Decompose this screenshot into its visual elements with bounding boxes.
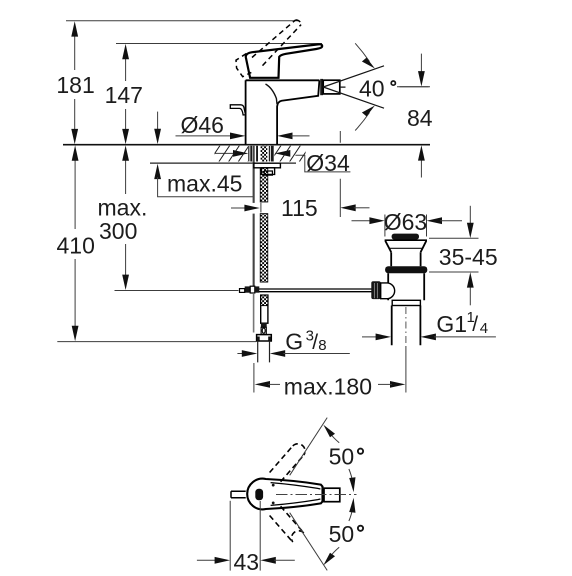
pull rod lower thin part (253, 294, 255, 333)
dimension 410 (57, 145, 95, 341)
dimension Ø34 (deck hole) (215, 150, 351, 176)
svg-text:max.45: max.45 (167, 171, 242, 197)
rod coupling block (245, 286, 251, 292)
plan spray outlet stub (231, 491, 246, 497)
dimension G1 1/4 (waste thread) (362, 309, 496, 341)
aerator block (323, 80, 340, 94)
50deg upper arc arrows (323, 425, 363, 493)
lever handle raised position (dashed) (236, 20, 301, 77)
svg-text:Ø63: Ø63 (384, 209, 427, 235)
dimension G 3/8 (hose thread) (237, 327, 349, 357)
plan lever inner edges (271, 483, 321, 489)
50deg extension line upper (290, 418, 328, 476)
dimension 35-45 (429, 206, 498, 305)
plan aerator junction (323, 488, 325, 501)
svg-text:G: G (285, 329, 303, 355)
svg-text:181: 181 (56, 72, 94, 98)
aerator junction band (320, 79, 323, 95)
dimension 181 (56, 21, 94, 144)
extension line lever tip level (116, 43, 322, 45)
braided hose upper section (260, 168, 268, 202)
svg-text:max.180: max.180 (284, 374, 372, 400)
svg-text:84: 84 (407, 105, 433, 131)
deck hole wall left (248, 146, 250, 161)
svg-text:/: / (472, 313, 478, 336)
dimension 147 (105, 44, 143, 144)
dimension 84 (397, 54, 433, 178)
braided hose lower section (260, 214, 268, 283)
hose fitting below (G3/8 connector) (257, 295, 272, 362)
dimension Ø63 (waste flange) (352, 209, 463, 236)
deck hatching left of hole (209, 146, 259, 163)
dimension max.300 (98, 145, 148, 290)
svg-text:35-45: 35-45 (439, 244, 498, 270)
svg-text:50: 50 (329, 521, 355, 547)
mounting nut (261, 168, 274, 175)
dimension 40 deg (355, 43, 428, 130)
braided hose through deck (261, 146, 268, 162)
knurled adjuster knob (371, 281, 380, 299)
svg-text:Ø34: Ø34 (306, 150, 350, 176)
plan lever rotated up 50deg (dashed) (270, 444, 305, 482)
shank cross-section bars through deck (250, 146, 252, 162)
svg-text:147: 147 (105, 82, 143, 108)
dimension max.180 (254, 346, 406, 400)
plan handle hole (dark D) (255, 489, 263, 501)
plan body outline (247, 479, 322, 510)
knob-to-body connector (381, 283, 395, 299)
svg-text:115: 115 (281, 195, 318, 221)
extension line top (lever raised tip level) (66, 20, 298, 22)
deck hatching right of hole (270, 146, 310, 163)
spray cone lines through aerator (323, 66, 384, 108)
pop-up knob on body (left hook) (230, 105, 245, 115)
waste ring (392, 300, 420, 305)
svg-text:300: 300 (99, 218, 137, 244)
50deg lower arc arrows (323, 498, 363, 566)
50deg extension line lower (290, 513, 328, 571)
plan aerator block (324, 488, 340, 502)
svg-text:43: 43 (234, 549, 260, 575)
plan lever rotated down 50deg (dashed) (270, 506, 304, 542)
plan lever screw dots (272, 484, 275, 487)
waste upper body (391, 252, 420, 266)
pull rod mid section (253, 214, 255, 288)
deck / counter line (63, 144, 430, 146)
bottom reference line (hose end level) (57, 341, 256, 343)
dimension Ø46 (176, 112, 310, 139)
svg-text:8: 8 (318, 337, 326, 354)
plan centerline (276, 494, 357, 496)
waste lower body (388, 273, 424, 300)
spout-body blend curve (266, 84, 278, 104)
dimension 115 (231, 131, 370, 221)
waste O-ring (385, 266, 427, 273)
svg-text:40: 40 (359, 76, 385, 102)
svg-text:50: 50 (329, 444, 355, 470)
tailpipe centerline (405, 307, 407, 345)
svg-text:Ø46: Ø46 (181, 112, 224, 138)
dimension max.45 (deck thickness) (154, 112, 253, 197)
faucet body outline (246, 80, 320, 144)
pull rod through deck (upper) (253, 146, 255, 203)
waste top flange (385, 239, 427, 241)
mounting washer below deck (254, 163, 281, 168)
under-deck line (150, 162, 296, 164)
dimension 43 (197, 501, 295, 575)
waste lift knob disc (392, 234, 419, 240)
svg-text:G1: G1 (436, 311, 467, 337)
horizontal pop-up linkage rod (115, 290, 239, 292)
waste tailpipe (392, 306, 421, 346)
svg-text:4: 4 (480, 320, 488, 337)
lever handle (solid, lowered) (246, 44, 322, 77)
svg-text:max.: max. (98, 194, 148, 220)
svg-text:410: 410 (57, 233, 95, 259)
